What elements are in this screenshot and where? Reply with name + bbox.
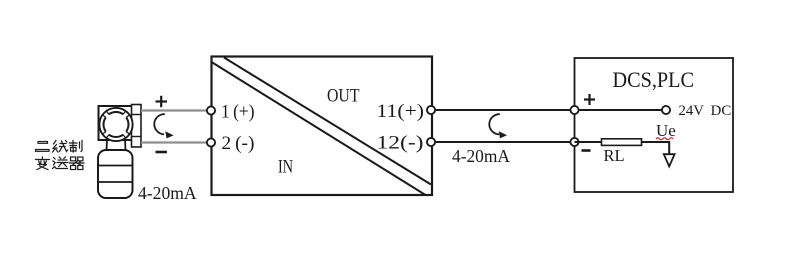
resistor RL [602,139,642,146]
svg-text:DCS,PLC: DCS,PLC [613,67,695,92]
变 [36,157,50,170]
terminal circle 24V [662,106,670,114]
svg-text:4-20mA: 4-20mA [452,146,510,166]
svg-text:2 (-): 2 (-) [222,133,255,154]
terminal circle 12 [427,138,435,146]
pin label 1(+) [221,102,255,123]
transmitter T1: mounting square [99,106,134,140]
value label 4-20mA (right) [452,146,510,166]
wire: DCS + rail to 24V terminal [575,109,662,111]
label OUT [327,87,360,107]
pin label 11(+) [377,101,425,122]
current direction arrow (right loop) [489,114,507,138]
polarity + (DCS) [584,94,595,105]
Ue arrow (open arrowhead down) [664,154,675,166]
current direction arrow (left loop) [154,114,173,138]
terminal circle DCS - [570,138,578,146]
label RL [604,146,625,165]
wire: 12(-) to DCS - (black) [431,141,575,143]
isolator diagonal stripe [212,58,432,196]
svg-text:4-20mA: 4-20mA [138,183,197,203]
terminal circle 1 [207,106,215,114]
pin label 2(-) [222,133,255,154]
svg-text:12(-): 12(-) [377,133,424,154]
label IN [278,158,293,178]
svg-text:1 (+): 1 (+) [221,102,255,123]
polarity + (left loop) [156,96,168,107]
transmitter T1: inner bezel ring [103,111,129,137]
wire: 11(+) to DCS + (black) [431,109,575,111]
pin label 12(-) [377,133,424,154]
二 [36,142,50,152]
svg-text:11(+): 11(+) [377,101,425,122]
svg-text:IN: IN [278,158,293,178]
polarity - (left loop) [156,151,168,154]
wire: DCS - to resistor RL [575,141,602,143]
svg-text:Ue: Ue [656,121,676,140]
transmitter T1: terminal block [132,105,142,148]
isolator/barrier U1 box [212,57,433,196]
terminal circle 2 [207,138,215,146]
label 24V DC [679,103,732,119]
transmitter T1: body [98,150,133,198]
svg-text:RL: RL [604,146,625,165]
polarity - (DCS) [582,149,591,152]
svg-text:24V DC: 24V DC [679,103,732,119]
送 [53,157,68,169]
terminal circle DCS + [570,106,578,114]
svg-text:OUT: OUT [327,87,360,107]
label 二线制变送器 (two-wire transmitter, outline CJK drawn as paths) [36,141,84,170]
label DCS,PLC [613,67,695,92]
wire: resistor RL to Ue arrow [642,142,670,154]
terminal circle 11 [427,106,435,114]
value label 4-20mA (left) [138,183,197,203]
wire: transmitter - to terminal 2 (gray) [141,141,207,143]
transmitter T1: neck [107,138,126,151]
wire: transmitter + to terminal 1 (gray) [141,109,207,111]
DCS,PLC box [575,58,734,192]
线 [53,141,68,153]
制 [70,141,83,153]
器 [70,157,84,170]
transmitter T1: head circle [99,108,132,141]
label Ue [656,121,676,140]
